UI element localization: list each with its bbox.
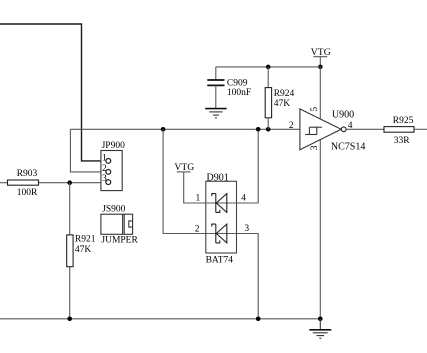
diode D901 bottom element (206, 224, 237, 243)
svg-text:3: 3 (102, 174, 107, 184)
ground symbol at bottom right (309, 319, 331, 339)
svg-text:1: 1 (196, 194, 201, 204)
resistor R903 (8, 180, 39, 185)
svg-text:JUMPER: JUMPER (101, 236, 138, 246)
jumper JS900 (101, 214, 133, 234)
junction R903 net / R921 branch (67, 180, 72, 185)
diode D901 top element (206, 194, 237, 213)
svg-text:2: 2 (102, 164, 107, 174)
wire external net from top-left into JP900 pin 1 (0, 24, 106, 161)
svg-text:JS900: JS900 (102, 205, 125, 215)
junction VTG / supply rail (318, 65, 323, 70)
junction ground net / R921 (67, 317, 72, 322)
wire U900 output to R925 (346, 128, 384, 130)
wire branch down to D901 pin 2 (163, 129, 206, 233)
svg-text:C909: C909 (227, 78, 248, 88)
svg-text:2: 2 (195, 224, 200, 234)
svg-text:100R: 100R (17, 188, 38, 198)
svg-text:D901: D901 (207, 173, 229, 184)
svg-text:33R: 33R (394, 136, 411, 146)
power symbol VTG top (311, 47, 331, 67)
svg-text:3: 3 (244, 224, 249, 234)
junction ground net / ground symbol (318, 317, 323, 322)
power symbol VTG at D901 pin 1 (174, 162, 205, 203)
wire input net to U900 pin 2 (70, 128, 300, 130)
wire ground net along bottom (0, 318, 320, 320)
junction supply rail / R924 (266, 65, 271, 70)
wire U900 pin 3 down to ground net (319, 140, 321, 319)
svg-text:VTG: VTG (174, 162, 194, 173)
wire U900 pin 5 from supply rail (319, 67, 321, 119)
junction ground net / D901 pin 3 branch (256, 317, 261, 322)
hysteresis symbol (305, 127, 322, 134)
svg-text:4: 4 (241, 194, 246, 204)
svg-text:5: 5 (310, 107, 320, 112)
diode D901 (dual Schottky) (206, 181, 237, 253)
wire R925 to right edge (414, 128, 427, 130)
connector JP900 (101, 151, 122, 191)
junction input net / D901 pin 4 branch (256, 127, 261, 132)
resistor R921 (67, 235, 73, 267)
svg-text:1: 1 (102, 153, 107, 163)
svg-text:100nF: 100nF (227, 88, 251, 98)
wire D901 pin 4 up to input net (237, 129, 259, 203)
ground symbol under C909 (205, 109, 226, 118)
svg-text:R903: R903 (17, 169, 38, 179)
wire R921 branch down to ground net (69, 183, 71, 319)
svg-text:2: 2 (289, 121, 294, 131)
wire supply rail (216, 66, 320, 68)
wire D901 pin 3 down to ground net (237, 234, 259, 319)
wire JP900 pin 2 up to input net (70, 129, 106, 172)
resistor R924 (265, 67, 271, 129)
wire R903 net to JP900 pin 3 (0, 182, 106, 184)
svg-text:47K: 47K (75, 245, 92, 255)
svg-text:47K: 47K (274, 99, 291, 109)
svg-text:NC7S14: NC7S14 (331, 142, 365, 153)
svg-text:BAT74: BAT74 (206, 256, 234, 266)
svg-text:JP900: JP900 (102, 141, 125, 151)
svg-text:R925: R925 (393, 116, 414, 126)
svg-text:U900: U900 (332, 110, 354, 121)
capacitor C909 (207, 67, 224, 109)
resistor R925 (384, 127, 414, 133)
inverter U900 NC7S14 (300, 109, 346, 150)
svg-text:R921: R921 (75, 234, 96, 244)
junction input net / D901 pin 2 branch (161, 127, 166, 132)
inversion bubble (341, 127, 346, 132)
svg-text:R924: R924 (274, 89, 295, 99)
svg-text:3: 3 (310, 145, 320, 150)
junction input net / R924 (266, 127, 271, 132)
